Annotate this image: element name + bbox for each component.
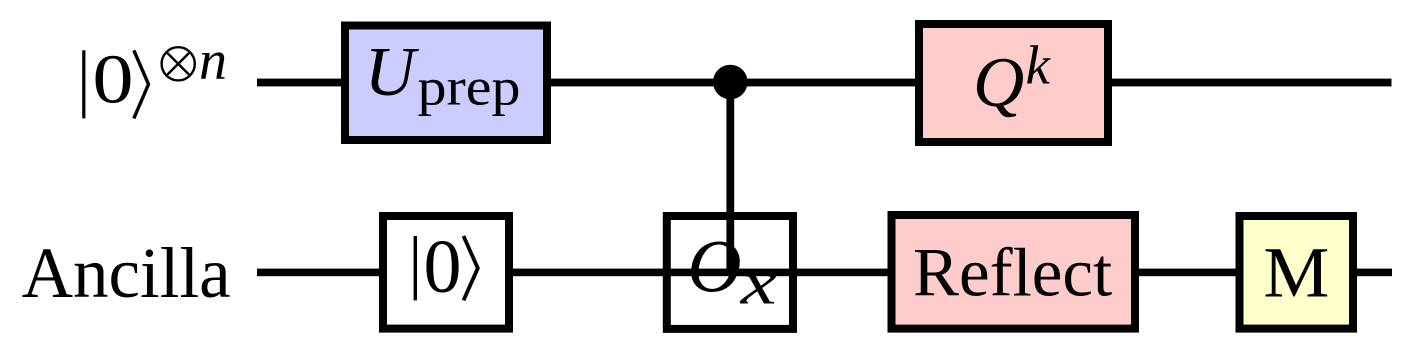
- svg-text:n: n: [199, 30, 227, 92]
- svg-text:Reflect: Reflect: [913, 235, 1112, 311]
- svg-text:0: 0: [92, 42, 133, 119]
- svg-text:O: O: [687, 226, 741, 309]
- svg-text:Ancilla: Ancilla: [22, 233, 231, 313]
- svg-text:Q: Q: [973, 44, 1024, 122]
- svg-text:k: k: [1026, 34, 1052, 95]
- svg-text:prep: prep: [418, 59, 521, 117]
- svg-text:0: 0: [424, 225, 462, 309]
- svg-text:U: U: [365, 34, 420, 111]
- svg-text:M: M: [1263, 232, 1329, 312]
- svg-text:x: x: [739, 249, 777, 317]
